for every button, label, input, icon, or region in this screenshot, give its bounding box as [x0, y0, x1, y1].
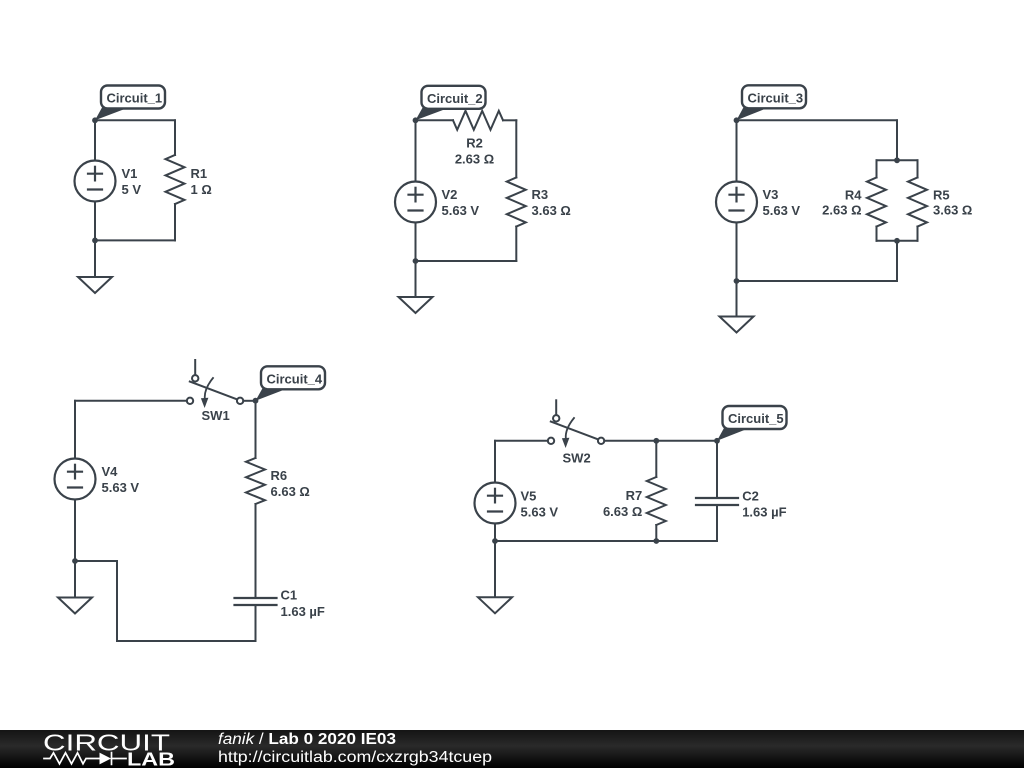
svg-text:Circuit_3: Circuit_3 [748, 91, 804, 106]
wire left rail c4 [74, 401, 76, 459]
node R7top junction dot [653, 438, 659, 444]
ground c2 [399, 297, 433, 313]
wire SW1 to left rail [75, 400, 187, 402]
svg-text:Circuit_1: Circuit_1 [107, 91, 163, 106]
wire R5 top lead [917, 160, 919, 177]
svg-text:2.63 Ω: 2.63 Ω [822, 203, 861, 218]
node B3 junction dot [734, 278, 740, 284]
wire R2 right lead [503, 119, 516, 121]
svg-text:5 V: 5 V [122, 182, 142, 197]
svg-text:SW1: SW1 [202, 408, 230, 423]
resistor R6 [246, 458, 265, 504]
label R4 2.63ohm [822, 187, 862, 217]
wire bottom jog vertical c4 [116, 561, 118, 641]
wire V1 top lead [94, 120, 96, 160]
capacitor C1 [235, 598, 277, 605]
label V3 5.63V [763, 187, 801, 218]
svg-text:3.63 Ω: 3.63 Ω [933, 203, 972, 218]
ground c5 [478, 597, 512, 613]
node R7bot junction dot [653, 538, 659, 544]
label C2 1.63uF [742, 489, 786, 520]
resistor R2 [453, 111, 503, 130]
switch SW2 right terminal [598, 438, 604, 444]
label R1 1ohm [191, 166, 212, 197]
wire R7 top lead [655, 441, 657, 477]
node label Circuit_5 [717, 406, 787, 441]
wire R4 bottom lead [876, 227, 878, 241]
label R6 6.63ohm [271, 468, 310, 499]
node B2 junction dot [413, 258, 419, 264]
svg-text:Circuit_2: Circuit_2 [427, 91, 483, 106]
svg-text:C2: C2 [742, 489, 759, 504]
svg-text:V2: V2 [442, 187, 458, 202]
switch SW2 blade [551, 422, 599, 440]
label SW2 [563, 450, 591, 465]
logo CIRCUIT text [43, 730, 170, 756]
wire bottom c3 [737, 280, 898, 282]
capacitor C2 [696, 498, 738, 505]
node label Circuit_4 [256, 366, 326, 400]
ground c1 [78, 277, 112, 293]
footer url text [218, 749, 492, 766]
svg-text:SW2: SW2 [563, 450, 591, 465]
resistor R5 [908, 178, 927, 227]
wire SW2 to branches [604, 440, 717, 442]
label V5 5.63V [521, 488, 559, 519]
node P2 junction dot [894, 238, 900, 244]
wire top c3 [737, 119, 898, 121]
svg-text:V5: V5 [521, 488, 537, 503]
resistor R1 [166, 155, 185, 204]
svg-text:fanik / Lab 0 2020 IE03: fanik / Lab 0 2020 IE03 [218, 731, 396, 748]
switch SW2 left terminal [548, 438, 554, 444]
wire C2 bottom lead [716, 505, 718, 541]
wire R6 top lead [255, 401, 257, 458]
switch SW1 arrow [201, 378, 213, 408]
node label Circuit_1 [95, 86, 165, 121]
switch SW2 top terminal [553, 415, 559, 421]
resistor R3 [507, 178, 526, 227]
wire R6 to C1 [255, 504, 257, 598]
ground c4 [58, 598, 92, 614]
wire C2 top lead [716, 441, 718, 498]
footer bar [0, 730, 1024, 768]
wire bottom c4 [117, 640, 256, 642]
svg-text:R7: R7 [626, 488, 643, 503]
svg-text:R4: R4 [845, 187, 862, 202]
wire R7 bottom lead [655, 525, 657, 541]
voltage source V5 [475, 483, 516, 524]
switch SW2 arrow [562, 418, 574, 448]
node A1 junction dot [92, 117, 98, 123]
switch SW1 blade [190, 382, 238, 400]
svg-text:Circuit_4: Circuit_4 [267, 372, 323, 387]
wire V4 bottom lead [74, 500, 76, 562]
wire bottom c2 [416, 260, 517, 262]
node B1 junction dot [92, 238, 98, 244]
switch SW1 right terminal [237, 398, 243, 404]
node C2top junction dot [714, 438, 720, 444]
switch SW1 stub [194, 360, 196, 375]
wire C1 bottom lead [255, 605, 257, 641]
wire parallel bottom lead [896, 241, 898, 281]
voltage source V1 [75, 161, 116, 202]
wire V3 top lead [736, 120, 738, 181]
switch SW1 top terminal [192, 375, 198, 381]
node B4 junction dot [72, 558, 78, 564]
switch SW2 stub [555, 400, 557, 415]
wire R3 top lead [515, 120, 517, 177]
wire R2 left lead [416, 119, 454, 121]
svg-text:6.63 Ω: 6.63 Ω [271, 484, 310, 499]
svg-text:3.63 Ω: 3.63 Ω [532, 203, 571, 218]
node P1 junction dot [894, 157, 900, 163]
node A2 junction dot [413, 117, 419, 123]
label V1 5V [122, 166, 142, 197]
svg-text:5.63 V: 5.63 V [102, 480, 140, 495]
wire top bracket c3 [877, 159, 918, 161]
logo LAB text [127, 750, 175, 768]
svg-text:1.63 µF: 1.63 µF [281, 604, 325, 619]
voltage source V3 [716, 182, 757, 223]
svg-text:R2: R2 [466, 136, 483, 151]
logo resistor-diode squiggle [44, 753, 126, 765]
wire left rail c5 [494, 441, 496, 483]
wire ground lead c2 [415, 261, 417, 297]
label R3 3.63ohm [532, 187, 571, 218]
svg-text:V1: V1 [122, 166, 138, 181]
node A3 junction dot [734, 117, 740, 123]
wire bottom jog horizontal c4 [75, 560, 117, 562]
resistor R7 [647, 477, 666, 525]
wire bottom c1 [95, 239, 175, 241]
wire R1 bottom lead [174, 204, 176, 240]
svg-text:2.63 Ω: 2.63 Ω [455, 152, 494, 167]
wire top c1 [95, 119, 175, 121]
svg-text:C1: C1 [281, 588, 298, 603]
wire R3 bottom lead [515, 227, 517, 262]
svg-text:http://circuitlab.com/cxzrgb34: http://circuitlab.com/cxzrgb34tcuep [218, 749, 492, 766]
svg-text:6.63 Ω: 6.63 Ω [603, 504, 642, 519]
svg-text:Circuit_5: Circuit_5 [728, 411, 784, 426]
svg-text:V3: V3 [763, 187, 779, 202]
ground c3 [720, 317, 754, 333]
wire ground lead c4 [74, 561, 76, 598]
switch SW1 left terminal [187, 398, 193, 404]
wire V5 bottom lead [494, 524, 496, 542]
node A4 junction dot [253, 398, 259, 404]
svg-text:1 Ω: 1 Ω [191, 182, 212, 197]
voltage source V4 [55, 459, 96, 500]
svg-text:5.63 V: 5.63 V [442, 203, 480, 218]
svg-text:R3: R3 [532, 187, 549, 202]
label C1 1.63uF [281, 588, 325, 619]
voltage source V2 [395, 182, 436, 223]
svg-text:1.63 µF: 1.63 µF [742, 504, 786, 519]
label R7 6.63ohm [603, 488, 642, 519]
svg-text:R5: R5 [933, 187, 950, 202]
label R5 3.63ohm [933, 187, 972, 217]
wire R4 top lead [876, 160, 878, 177]
wire V2 top lead [415, 120, 417, 181]
svg-text:5.63 V: 5.63 V [763, 203, 801, 218]
wire R1 top lead [174, 120, 176, 155]
svg-text:5.63 V: 5.63 V [521, 504, 559, 519]
wire V3 bottom lead [736, 223, 738, 282]
svg-text:V4: V4 [102, 464, 119, 479]
wire bottom c5 [495, 540, 717, 542]
wire V2 bottom lead [415, 223, 417, 262]
node label Circuit_2 [416, 86, 486, 121]
wire ground lead c3 [736, 281, 738, 317]
wire V1 bottom lead [94, 202, 96, 241]
svg-text:LAB: LAB [127, 750, 175, 768]
label V2 5.63V [442, 187, 480, 218]
node B5 junction dot [492, 538, 498, 544]
node label Circuit_3 [737, 85, 807, 120]
wire SW2 to left rail [495, 440, 548, 442]
wire R5 bottom lead [917, 227, 919, 241]
wire right rail c3 [896, 120, 898, 160]
label V4 5.63V [102, 464, 140, 495]
wire ground lead c5 [494, 541, 496, 597]
wire SW1 to node [243, 400, 255, 402]
wire bottom bracket c3 [877, 240, 918, 242]
label R2 2.63ohm [455, 136, 494, 167]
resistor R4 [867, 178, 886, 227]
svg-text:R1: R1 [191, 166, 208, 181]
footer title text [218, 731, 396, 748]
wire ground lead c1 [94, 240, 96, 277]
label SW1 [202, 408, 230, 423]
svg-text:R6: R6 [271, 468, 288, 483]
